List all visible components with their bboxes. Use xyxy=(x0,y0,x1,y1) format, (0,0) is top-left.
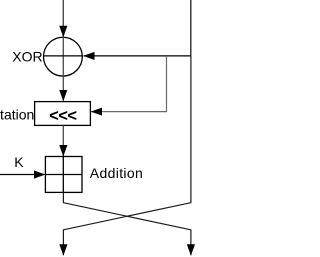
svg-text:XOR: XOR xyxy=(12,49,42,65)
wire: K input arrow into addition box xyxy=(0,174,45,176)
svg-text:Rotation: Rotation xyxy=(0,107,34,123)
wire: XOR output down into rotation box xyxy=(62,76,64,100)
wire: horizontal bar of XOR plus xyxy=(43,55,83,57)
wire: horizontal from right vertical into XOR circle xyxy=(84,55,191,57)
wire: branch from node down to rotation box xyxy=(91,56,166,112)
addition box (square with plus) xyxy=(45,157,82,193)
wire: horizontal bar of addition plus xyxy=(45,174,82,176)
rotation box xyxy=(35,102,91,126)
wire: rotation output down into addition box xyxy=(62,126,64,157)
svg-text:K: K xyxy=(14,154,24,170)
wire: vertical through XOR circle xyxy=(62,37,64,76)
svg-text:<<<: <<< xyxy=(49,107,76,125)
svg-text:Addition: Addition xyxy=(90,165,143,181)
wire: top input vertical into XOR xyxy=(62,0,64,37)
wire: right input vertical line xyxy=(190,0,192,56)
wire: left output crossover to right, with down arrow xyxy=(63,192,190,255)
wire: right line crossover to left, with down arrow xyxy=(63,56,190,255)
op XOR circle U1 xyxy=(44,37,83,76)
wire: vertical bar of addition plus xyxy=(62,157,64,193)
